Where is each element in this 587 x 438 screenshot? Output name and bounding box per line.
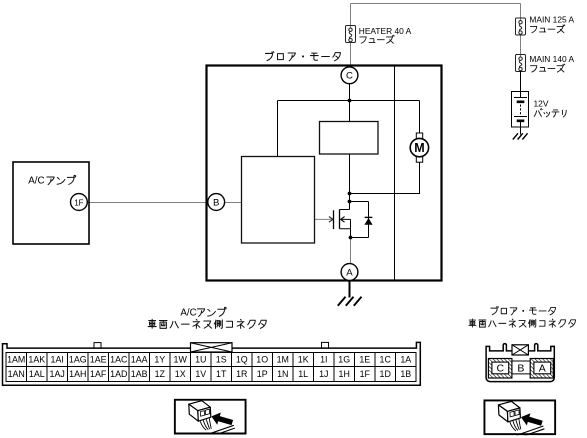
svg-text:1N: 1N [277, 369, 288, 379]
svg-text:1G: 1G [338, 355, 350, 365]
svg-text:1AN: 1AN [8, 369, 25, 379]
svg-text:MAIN 140 A: MAIN 140 A [529, 54, 574, 64]
svg-text:1L: 1L [298, 369, 308, 379]
svg-text:A/C: A/C [28, 176, 44, 187]
svg-text:HEATER 40 A: HEATER 40 A [359, 26, 412, 36]
svg-text:1AG: 1AG [69, 355, 87, 365]
svg-text:1AF: 1AF [90, 369, 107, 379]
svg-text:1AJ: 1AJ [50, 369, 65, 379]
svg-text:1Z: 1Z [155, 369, 166, 379]
svg-text:1Y: 1Y [154, 355, 165, 365]
svg-text:1D: 1D [380, 369, 391, 379]
svg-text:C: C [346, 71, 353, 82]
svg-text:1V: 1V [195, 369, 206, 379]
svg-text:1R: 1R [236, 369, 247, 379]
svg-text:12V: 12V [534, 98, 549, 108]
svg-text:A: A [539, 363, 546, 375]
svg-text:A: A [346, 267, 353, 278]
svg-text:1U: 1U [195, 355, 206, 365]
svg-text:1W: 1W [174, 355, 188, 365]
svg-text:1A: 1A [400, 355, 411, 365]
svg-text:1I: 1I [320, 355, 327, 365]
svg-text:1E: 1E [359, 355, 370, 365]
svg-text:1S: 1S [216, 355, 227, 365]
svg-text:MAIN 125 A: MAIN 125 A [529, 15, 574, 25]
svg-text:1AK: 1AK [28, 355, 45, 365]
svg-text:1O: 1O [256, 355, 268, 365]
svg-text:B: B [517, 362, 524, 374]
svg-text:1J: 1J [319, 369, 328, 379]
svg-text:1Q: 1Q [236, 355, 248, 365]
svg-text:B: B [213, 197, 219, 208]
svg-text:1AD: 1AD [110, 369, 127, 379]
svg-text:1H: 1H [339, 369, 350, 379]
svg-text:1AL: 1AL [29, 369, 45, 379]
svg-text:1AH: 1AH [69, 369, 86, 379]
svg-text:M: M [414, 141, 424, 155]
svg-text:1AC: 1AC [110, 355, 128, 365]
svg-text:1T: 1T [216, 369, 227, 379]
svg-text:1B: 1B [400, 369, 411, 379]
svg-text:1P: 1P [257, 369, 268, 379]
svg-text:1F: 1F [74, 198, 83, 207]
svg-text:1K: 1K [298, 355, 309, 365]
svg-text:1AE: 1AE [90, 355, 107, 365]
svg-text:1AA: 1AA [131, 355, 148, 365]
svg-text:A/C: A/C [180, 307, 196, 318]
svg-text:1X: 1X [175, 369, 186, 379]
svg-text:1AB: 1AB [131, 369, 148, 379]
svg-text:C: C [497, 363, 505, 375]
svg-text:1C: 1C [380, 355, 392, 365]
svg-text:1AM: 1AM [7, 355, 25, 365]
svg-text:1M: 1M [277, 355, 289, 365]
svg-text:1AI: 1AI [51, 355, 64, 365]
svg-text:1F: 1F [360, 369, 371, 379]
